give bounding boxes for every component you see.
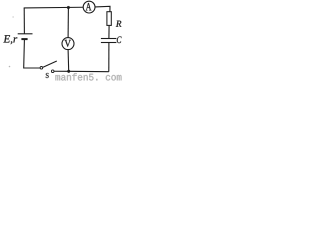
switch S blade [43, 61, 57, 67]
label S [46, 73, 49, 78]
wire: capacitor to bottom-right corner [108, 43, 110, 72]
voltmeter V circle [62, 38, 74, 50]
battery long plate [18, 33, 33, 35]
capacitor bottom plate [101, 42, 117, 44]
speck top left [13, 16, 14, 17]
ammeter A circle [83, 1, 95, 13]
watermark manfen5.com [55, 73, 121, 80]
wire: bottom right segment [54, 70, 109, 72]
voltmeter letter V [64, 40, 70, 47]
switch S right contact [51, 70, 54, 73]
resistor R [107, 12, 111, 26]
node: top junction dot [67, 6, 70, 9]
speck bottom left [9, 66, 11, 68]
ammeter letter A [86, 3, 92, 10]
battery short plate [21, 38, 27, 40]
label E,r [3, 35, 17, 44]
wire: top left segment [24, 6, 83, 9]
wire: voltmeter bottom lead [67, 50, 70, 72]
switch S left contact [40, 67, 43, 70]
label R [116, 21, 122, 27]
wire: top right segment [95, 6, 110, 11]
wire: bottom left segment [24, 40, 41, 68]
wire: resistor to capacitor [108, 25, 110, 38]
wire: voltmeter top lead [67, 8, 69, 38]
wire: left branch top (corner to battery) [23, 8, 25, 34]
label C [117, 36, 122, 43]
node: bottom junction dot [67, 70, 70, 73]
capacitor top plate [101, 38, 117, 40]
